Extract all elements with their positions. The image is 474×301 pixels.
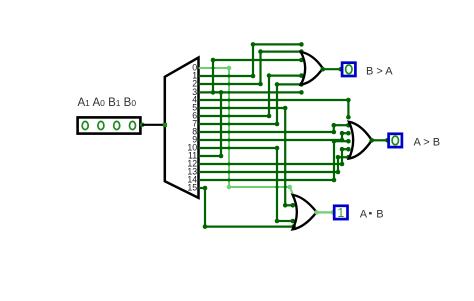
wire net pin2 to U1 input 52 bbox=[199, 49, 304, 86]
wire net pin13 to U2 input 157 bbox=[199, 155, 351, 174]
wire net pin7 to U1 input 84 bbox=[199, 82, 304, 126]
wire net pin9 to U2 input 133 bbox=[199, 131, 351, 142]
wire net pin5 to U3 input bbox=[199, 106, 296, 208]
wire net pin3 to U1 input 92 bbox=[199, 90, 304, 95]
svg-text:A > B: A > B bbox=[414, 137, 441, 149]
OR gate U3 (A=B) bbox=[293, 195, 317, 230]
svg-text:B > A: B > A bbox=[366, 65, 393, 77]
wire U2 output to pin A>B bbox=[370, 138, 390, 143]
wire net pin8 to U2 input 125 bbox=[199, 123, 351, 134]
wire net pin10 to U3 input bbox=[199, 146, 296, 224]
svg-text:15: 15 bbox=[187, 183, 197, 193]
svg-text:A1 A0 B1 B0: A1 A0 B1 B0 bbox=[78, 97, 137, 109]
OR gate U2 (A>B) bbox=[349, 122, 372, 159]
decoder U4 4-to-16 bbox=[165, 58, 199, 198]
wire net pin0 to U3 (value 1) bbox=[199, 66, 294, 196]
wire U3 output to pin A=B (value 1) bbox=[314, 210, 335, 215]
output pin A>B (value 0) bbox=[389, 134, 402, 147]
output pin B>A (value 0) bbox=[342, 63, 355, 76]
svg-text:A: A bbox=[360, 208, 368, 220]
wire net pin6 to U1 input 76 bbox=[199, 73, 304, 118]
wire net pin12 to U2 input 149 bbox=[199, 147, 351, 166]
decoder select port bbox=[163, 123, 167, 127]
wire net pin15 to U3 input bbox=[199, 186, 296, 229]
output pin A=B (value 1) bbox=[334, 206, 347, 220]
wire net pin4 to U2 input 117 bbox=[199, 98, 351, 120]
OR gate U1 (B>A) bbox=[301, 52, 323, 85]
wire net pin14 to U2 input 141 bbox=[199, 139, 351, 182]
wire net pin11 to U1 input 60 bbox=[199, 58, 304, 159]
wire crossing overlap marks bbox=[212, 59, 344, 189]
svg-text:1: 1 bbox=[337, 206, 344, 220]
svg-text:B: B bbox=[376, 208, 383, 220]
bus wire input pin to decoder (4-bit, black) bbox=[140, 123, 165, 128]
input pin A1A0B1B0 (4-bit, value 0000) bbox=[78, 117, 141, 133]
wire net pin1 to U1 input 44 bbox=[199, 42, 304, 78]
wire U1 output to pin B>A bbox=[321, 67, 344, 72]
